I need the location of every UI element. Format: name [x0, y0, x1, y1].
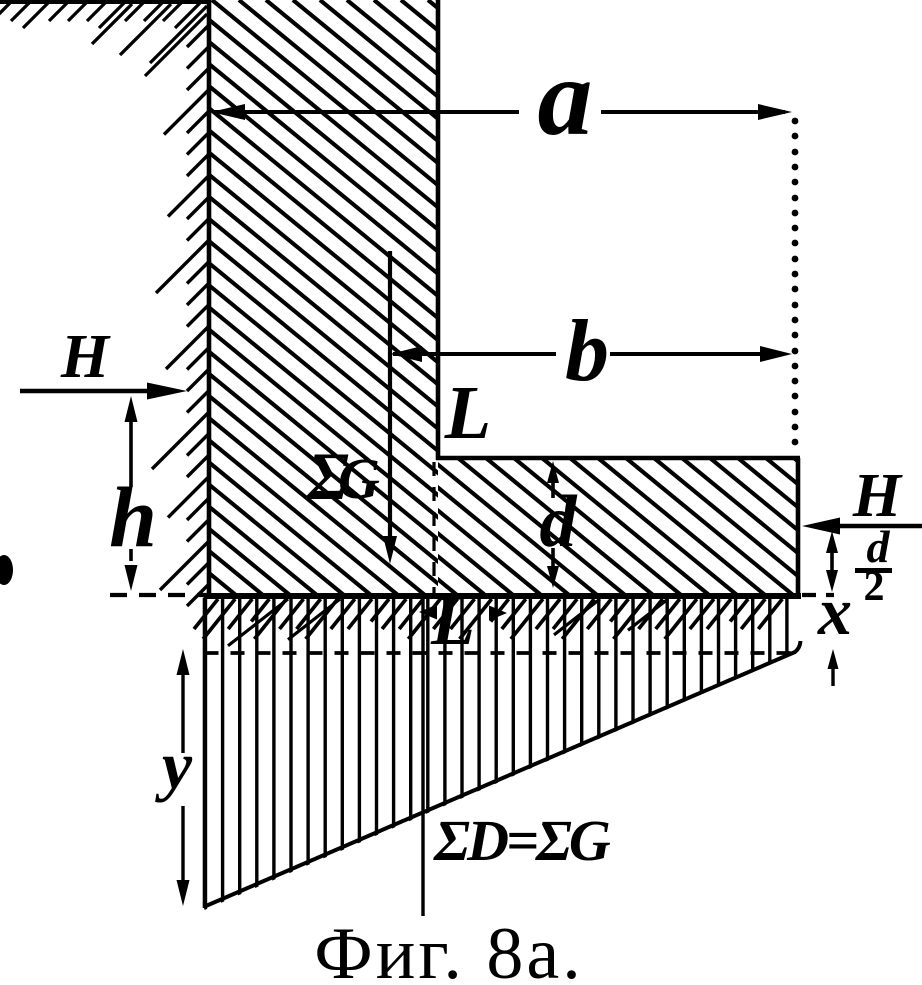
- svg-text:L: L: [430, 580, 475, 660]
- svg-text:2: 2: [864, 564, 885, 610]
- svg-text:G: G: [338, 446, 380, 511]
- svg-text:b: b: [565, 303, 609, 400]
- svg-text:L: L: [444, 371, 491, 455]
- svg-text:ΣD=ΣG: ΣD=ΣG: [433, 808, 611, 873]
- svg-text:H: H: [852, 462, 903, 530]
- svg-text:H: H: [60, 323, 111, 391]
- svg-text:a: a: [538, 36, 593, 158]
- svg-text:d: d: [540, 481, 578, 563]
- svg-text:x: x: [817, 573, 852, 649]
- svg-text:Фиг. 8а.: Фиг. 8а.: [314, 913, 583, 980]
- svg-text:h: h: [109, 469, 157, 565]
- svg-text:y: y: [155, 727, 193, 803]
